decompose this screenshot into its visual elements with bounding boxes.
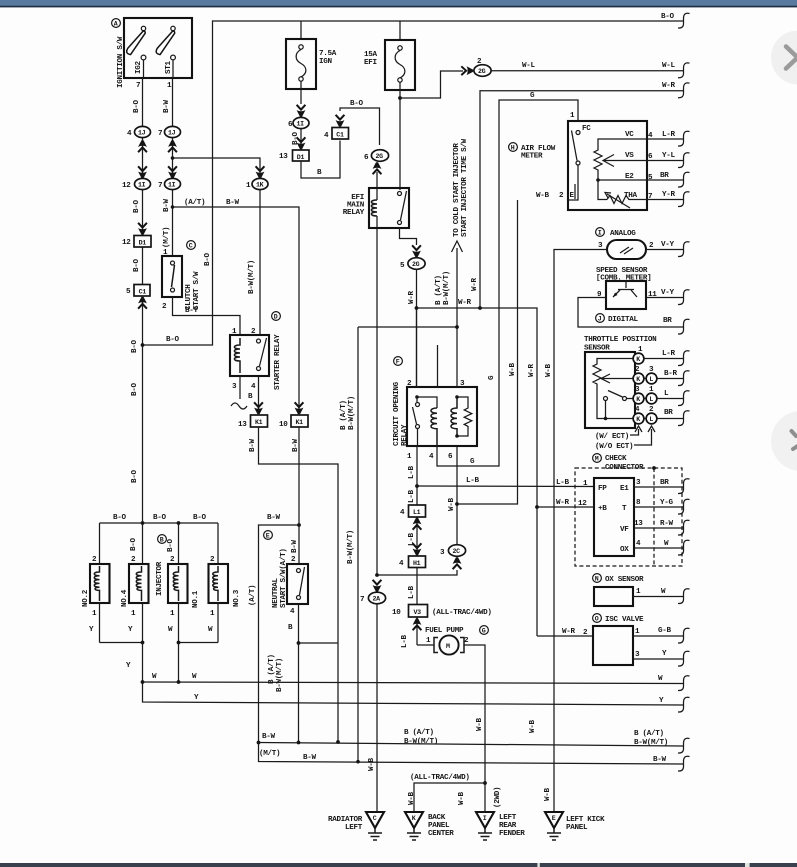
svg-text:(M/T): (M/T) (259, 750, 280, 758)
node W-R branch to CC (535, 505, 539, 509)
svg-text:THA: THA (624, 192, 638, 200)
injector B-O bus (100, 522, 219, 524)
isc valve box (593, 626, 633, 665)
svg-text:BR: BR (664, 409, 673, 417)
circuit opening relay box (407, 387, 477, 446)
svg-text:2: 2 (131, 556, 136, 564)
svg-text:2A: 2A (373, 596, 381, 603)
svg-text:3: 3 (460, 380, 465, 388)
svg-text:L-B: L-B (556, 479, 570, 487)
clutch start switch box (162, 256, 182, 297)
ground triangle E left kick panel (545, 812, 563, 840)
svg-text:B-W(M/T): B-W(M/T) (248, 260, 256, 294)
svg-text:B-Y: B-Y (185, 307, 199, 315)
svg-text:D1: D1 (139, 239, 147, 246)
starter relay switch (257, 338, 267, 371)
node COR coil2 bottom (455, 434, 459, 438)
nav button right middle (771, 411, 797, 471)
node W pair joins W bus (177, 680, 181, 684)
svg-text:VF: VF (620, 526, 629, 534)
svg-text:5: 5 (126, 288, 131, 296)
wire L-B to check connector FP (417, 485, 594, 488)
svg-text:B-O: B-O (193, 514, 207, 522)
check connector dashed boundary (575, 468, 682, 566)
svg-text:B: B (248, 393, 253, 401)
svg-text:10: 10 (279, 421, 288, 429)
label (W/ ECT) (595, 426, 642, 441)
svg-text:L-B: L-B (408, 585, 416, 599)
svg-text:W-B: W-B (368, 757, 376, 771)
svg-text:13: 13 (238, 421, 247, 429)
node fuel pump ground split (483, 781, 487, 785)
wire link NSS node to x338 (299, 642, 339, 644)
branch 2 2G W-L: efi fuse node (398, 96, 402, 100)
node W-R bus joins W-R horizontal (478, 306, 482, 310)
digital speed sensor box (606, 281, 646, 309)
svg-text:R-W: R-W (660, 520, 674, 528)
svg-text:Y: Y (89, 626, 94, 634)
node W-R junction (415, 306, 419, 310)
connector 12 D1 (122, 236, 151, 248)
svg-text:7: 7 (158, 182, 163, 190)
wire 2A to radiator ground (376, 604, 378, 812)
svg-text:START INJECTOR TIME S/W: START INJECTOR TIME S/W (461, 138, 469, 237)
svg-text:I: I (483, 815, 487, 822)
circled H air flow meter (509, 143, 518, 152)
svg-text:L-B: L-B (408, 489, 416, 503)
svg-text:B-O: B-O (133, 99, 141, 113)
connector 10 K1 (279, 415, 308, 429)
svg-text:W-B: W-B (408, 791, 416, 805)
wire EFI relay coil column (376, 172, 378, 575)
svg-text:13: 13 (279, 153, 288, 161)
svg-text:B: B (317, 169, 322, 177)
svg-text:K1: K1 (296, 419, 304, 426)
svg-text:B-O: B-O (113, 514, 127, 522)
svg-text:RELAY: RELAY (343, 209, 365, 217)
COR coil 1 (431, 408, 437, 446)
wire branch to back panel center (414, 783, 485, 812)
svg-text:(M/T): (M/T) (163, 227, 171, 248)
svg-text:M: M (446, 643, 450, 650)
wire top B-O bus down left side (143, 21, 684, 345)
wire W-L bus (491, 70, 683, 72)
svg-text:3: 3 (232, 383, 237, 391)
svg-text:L-B: L-B (466, 477, 480, 485)
ground triangle K back panel center (405, 812, 423, 840)
connector 6 1I fuse (288, 117, 309, 129)
svg-text:4: 4 (636, 540, 641, 548)
wire D1 to C1 U-link B (301, 141, 340, 179)
AFM potentiometer VC/VS/E2 (594, 139, 647, 200)
AFM FC switch (568, 125, 591, 200)
ground triangle I left rear fender (476, 812, 494, 840)
svg-text:B-O: B-O (131, 382, 139, 396)
node injector bus at x178 (177, 521, 181, 525)
svg-text:W-B: W-B (544, 787, 552, 801)
clutch switch contacts (171, 261, 175, 292)
svg-text:V-Y: V-Y (661, 241, 675, 249)
svg-text:CENTER: CENTER (428, 830, 454, 838)
svg-text:3: 3 (636, 479, 641, 487)
svg-text:3: 3 (440, 549, 445, 557)
svg-text:2G: 2G (376, 153, 384, 160)
svg-text:1: 1 (407, 453, 412, 461)
svg-text:W-R: W-R (408, 290, 416, 304)
connector 3 2C (440, 545, 466, 557)
arrow into 1I fuse column pointing down (297, 105, 306, 117)
node joining B-O feeds (141, 343, 145, 347)
svg-text:B-O: B-O (350, 100, 364, 108)
connector 7 1J (158, 126, 181, 138)
svg-text:B-W: B-W (226, 199, 240, 207)
injector NO.2 (90, 523, 110, 643)
svg-text:W-B: W-B (448, 497, 456, 511)
node W-B joins cold start line (455, 502, 459, 506)
svg-text:B-O: B-O (133, 258, 141, 272)
svg-text:12: 12 (122, 182, 131, 190)
wire W column to W bus (178, 643, 180, 683)
svg-text:B (A/T): B (A/T) (435, 275, 443, 305)
node cold start joins (455, 325, 459, 329)
svg-text:W: W (208, 626, 213, 634)
svg-text:G: G (488, 375, 496, 380)
svg-text:(W/ ECT): (W/ ECT) (595, 433, 629, 441)
svg-text:K: K (636, 416, 640, 423)
svg-text:B-W(M/T): B-W(M/T) (634, 739, 668, 747)
wire B-O bridge C1 to 2G (340, 108, 380, 145)
wire COR pin2 from top (416, 308, 418, 387)
svg-text:STARTER RELAY: STARTER RELAY (274, 334, 282, 390)
svg-text:K: K (636, 356, 640, 363)
wire digital pin9 BR loop (578, 298, 683, 328)
svg-text:2: 2 (559, 192, 564, 200)
digital transistor symbol (613, 281, 637, 297)
wire W bus (143, 682, 684, 684)
top chrome bar (0, 0, 797, 6)
svg-text:IGNITION S/W: IGNITION S/W (117, 36, 125, 88)
svg-text:2: 2 (291, 556, 296, 564)
svg-text:INJECTOR: INJECTOR (156, 561, 164, 596)
svg-text:G: G (470, 458, 475, 466)
svg-text:2: 2 (251, 328, 256, 336)
svg-text:LEFT: LEFT (345, 824, 363, 832)
svg-text:V3: V3 (414, 609, 422, 616)
svg-text:C1: C1 (336, 131, 344, 138)
wire (A/T) B-W branch to 10 K1 (173, 207, 300, 412)
svg-text:I: I (598, 230, 602, 237)
circled M check connector (593, 454, 602, 463)
svg-text:K1: K1 (255, 419, 263, 426)
node x338 joins B bus (336, 740, 340, 744)
injector NO.4 (129, 523, 149, 643)
wire 10 K1 output down (298, 427, 300, 525)
svg-text:METER: METER (521, 153, 543, 161)
svg-text:8: 8 (636, 499, 641, 507)
wire speed sensor left to W-B ground column (554, 250, 607, 813)
svg-text:12: 12 (122, 239, 131, 247)
svg-text:G: G (530, 92, 535, 100)
node x358 at B-W bus (356, 760, 360, 764)
svg-text:3: 3 (635, 651, 640, 659)
svg-text:W: W (658, 675, 663, 683)
svg-text:L: L (649, 396, 653, 403)
wire x358 from B-W bus to cold start node (358, 327, 457, 762)
svg-text:2G: 2G (412, 261, 420, 268)
svg-text:OX: OX (620, 546, 629, 554)
svg-text:Y: Y (194, 694, 199, 702)
svg-text:1: 1 (232, 328, 237, 336)
TPS output wires (644, 359, 683, 419)
svg-text:B-O: B-O (167, 538, 175, 552)
label circled A (112, 19, 121, 28)
svg-text:FC: FC (582, 125, 591, 133)
connector 5 C1 (126, 285, 150, 297)
svg-text:1: 1 (570, 112, 575, 120)
connector 10 V3 (392, 605, 428, 618)
svg-text:B-O: B-O (166, 336, 180, 344)
svg-text:B-W(M/T): B-W(M/T) (404, 738, 438, 746)
circled G fuel pump (480, 626, 489, 635)
svg-text:B-W(M/T): B-W(M/T) (443, 271, 451, 305)
svg-text:C1: C1 (139, 288, 147, 295)
svg-text:G-B: G-B (658, 627, 672, 635)
arrow into 1I (IG2) pointing down (138, 166, 147, 178)
svg-text:W: W (168, 626, 173, 634)
wire injector NO.1/NO.3 merge (179, 642, 219, 644)
svg-text:1: 1 (635, 628, 640, 636)
svg-text:1K: 1K (256, 182, 264, 189)
circled C clutch start switch (187, 241, 196, 250)
COR resistor (457, 397, 472, 436)
circled O isc valve (593, 614, 602, 623)
circled I analog (596, 228, 605, 237)
arrow into D1 fuse column pointing down (297, 137, 306, 149)
starter relay coil (234, 338, 240, 373)
arrow into 10 K1 pointing down (295, 402, 304, 414)
injector NO.1 (168, 523, 188, 643)
wire NSS bypass (M/T) (259, 525, 684, 764)
svg-text:1J: 1J (168, 130, 176, 137)
ox sensor box (594, 587, 633, 606)
svg-text:PANEL: PANEL (566, 824, 588, 832)
svg-text:B-O: B-O (661, 13, 675, 21)
svg-text:5: 5 (648, 174, 653, 182)
wire IG2 column B-O (143, 60, 144, 523)
arrow into 2 2G pointing right (461, 66, 473, 75)
svg-text:4: 4 (400, 509, 405, 517)
svg-text:2: 2 (407, 380, 412, 388)
connector 2 2G (474, 58, 491, 76)
svg-text:(2WD): (2WD) (494, 787, 502, 808)
svg-text:B-W: B-W (262, 733, 276, 741)
wire 2C to 2A jog (377, 570, 457, 575)
svg-text:LEFT: LEFT (499, 814, 517, 822)
wire B bus (A/T)/(M/T) (259, 743, 684, 747)
wire W-R horizontal to x537 (417, 308, 538, 636)
starter relay box (230, 335, 269, 376)
svg-text:W: W (664, 540, 669, 548)
svg-text:A: A (114, 21, 118, 28)
svg-text:15A: 15A (364, 51, 378, 59)
COR coil 2 (451, 397, 457, 436)
svg-text:5: 5 (400, 262, 405, 270)
svg-text:CHECK: CHECK (605, 455, 627, 463)
check connector box (594, 478, 634, 556)
svg-text:W-R: W-R (471, 277, 479, 291)
connector 4 H1 (399, 556, 426, 568)
open arrowhead cold start (452, 241, 463, 252)
svg-text:4: 4 (324, 132, 329, 140)
svg-text:NO.3: NO.3 (233, 589, 241, 607)
svg-text:1: 1 (583, 480, 588, 488)
wire from ST1 node to 1K (173, 158, 261, 178)
svg-text:B-O: B-O (153, 514, 167, 522)
svg-text:B-W(M/T): B-W(M/T) (348, 396, 356, 430)
ISC output wires (633, 636, 683, 659)
wire NSS pin4 down (298, 604, 300, 743)
svg-text:Y: Y (128, 626, 133, 634)
svg-text:B-W: B-W (291, 539, 299, 553)
COR link pin2 to coil1 (417, 397, 437, 408)
circled N ox sensor (593, 574, 602, 583)
node NSS column joins B bus (297, 741, 301, 745)
svg-text:CIRCUIT OPENING: CIRCUIT OPENING (393, 381, 401, 446)
circled J digital (596, 314, 605, 323)
nav button right top (771, 31, 797, 85)
svg-text:L-B: L-B (408, 465, 416, 479)
svg-text:J: J (598, 316, 602, 323)
EFI relay coil (371, 200, 377, 216)
svg-text:(ALL-TRAC/4WD): (ALL-TRAC/4WD) (432, 609, 492, 617)
svg-text:4: 4 (251, 383, 256, 391)
svg-text:B (A/T): B (A/T) (634, 730, 664, 738)
svg-text:13: 13 (634, 520, 643, 528)
svg-text:Y: Y (659, 697, 664, 705)
svg-text:B-O: B-O (130, 537, 138, 551)
fuel pump motor (417, 635, 485, 812)
NSS contacts (297, 567, 305, 600)
svg-text:M: M (595, 456, 599, 463)
wire W-R bus top (480, 91, 683, 308)
label (W/O ECT) (595, 426, 655, 451)
svg-text:B-W(M/T): B-W(M/T) (347, 530, 355, 564)
connector 4 L1 (400, 505, 426, 517)
connector 7 2A (360, 592, 386, 604)
wire digital pin11 V-Y (646, 297, 683, 299)
svg-text:ST1: ST1 (165, 60, 173, 74)
TPS pin circles K/L (633, 346, 657, 424)
node NSS to K1 link (297, 641, 301, 645)
arrow into H1 pointing down (413, 543, 422, 555)
wire speed sensor right V-Y (646, 249, 683, 251)
wire NSS pin2 (298, 525, 300, 564)
svg-text:1J: 1J (138, 130, 146, 137)
svg-text:W-B: W-B (545, 363, 553, 377)
svg-text:1: 1 (170, 610, 175, 618)
circled E neutral start switch (264, 531, 273, 540)
svg-text:VS: VS (625, 152, 634, 160)
connector 13 D1 (279, 150, 309, 161)
svg-text:Y-R: Y-R (662, 191, 676, 199)
wire 13 K1 output to x338 (259, 427, 339, 742)
svg-text:W-B: W-B (476, 717, 484, 731)
svg-text:T: T (622, 505, 627, 513)
svg-text:W-R: W-R (556, 499, 570, 507)
circled F circuit opening relay (394, 357, 403, 366)
svg-text:L-R: L-R (662, 131, 676, 139)
wire COR pin3 B from 13K1... vertical x437 feed (437, 345, 439, 387)
arrow into D1 pointing down (138, 223, 147, 235)
svg-text:ISC VALVE: ISC VALVE (605, 616, 644, 624)
TPS potentiometer (593, 359, 633, 391)
svg-text:B (A/T): B (A/T) (268, 654, 276, 684)
svg-text:E: E (570, 192, 575, 200)
svg-text:OX SENSOR: OX SENSOR (605, 576, 644, 584)
svg-text:W-R: W-R (528, 363, 536, 377)
circled D starter relay (272, 312, 281, 321)
wire W-R to CC +B (537, 506, 594, 508)
svg-text:1: 1 (426, 637, 431, 645)
svg-text:(W/O ECT): (W/O ECT) (595, 443, 633, 451)
svg-text:IG2: IG2 (135, 60, 143, 74)
svg-text:1I: 1I (138, 182, 146, 189)
svg-text:4: 4 (127, 130, 132, 138)
connector 1 1K (246, 178, 268, 190)
circled B injector (158, 535, 167, 544)
arrow into 1K pointing down (256, 166, 265, 178)
svg-text:W: W (192, 673, 197, 681)
ignition switch ST1 lever (156, 26, 175, 60)
wire W-R from 2G down (416, 270, 418, 388)
svg-text:NO.1: NO.1 (192, 590, 200, 608)
connector hooks at right edge (678, 13, 690, 771)
wire starter relay pin3 with squiggle to starter (231, 376, 247, 409)
svg-text:G: G (482, 628, 486, 635)
svg-text:FP: FP (598, 485, 607, 493)
wire B-Y clutch to starter relay pin1 (173, 297, 241, 335)
svg-text:L: L (664, 390, 669, 398)
connector 7 1I (158, 178, 181, 190)
svg-text:E2: E2 (625, 173, 634, 181)
analog speed sensor reed switch (607, 240, 646, 259)
svg-text:4: 4 (290, 608, 295, 616)
fuse 7.5A IGN (286, 21, 316, 104)
svg-text:4: 4 (399, 560, 404, 568)
wire ST1 column B-W (172, 60, 175, 256)
wire to 2 2G (400, 71, 463, 98)
node merge Y pair (141, 641, 145, 645)
svg-text:(A/T): (A/T) (184, 199, 205, 207)
node at clutch/AT branch (171, 205, 175, 209)
svg-text:Y-G: Y-G (660, 499, 674, 507)
svg-text:L1: L1 (413, 509, 421, 516)
svg-text:3: 3 (598, 242, 603, 250)
connector 13 K1 (238, 415, 268, 429)
node NSS split (297, 523, 301, 527)
svg-text:7.5A: 7.5A (319, 50, 337, 58)
node on ST1 wire at y158 (171, 156, 175, 160)
ground triangle C radiator left (366, 812, 384, 840)
svg-text:W-L: W-L (662, 62, 676, 70)
svg-text:Y: Y (126, 662, 131, 670)
wire W-B from AFM E down (457, 200, 518, 504)
svg-text:L: L (649, 416, 653, 423)
connector 4 C1 (324, 128, 349, 141)
svg-text:1: 1 (210, 610, 215, 618)
svg-text:(ALL-TRAC/4WD): (ALL-TRAC/4WD) (410, 774, 470, 782)
svg-text:Y: Y (662, 650, 667, 658)
